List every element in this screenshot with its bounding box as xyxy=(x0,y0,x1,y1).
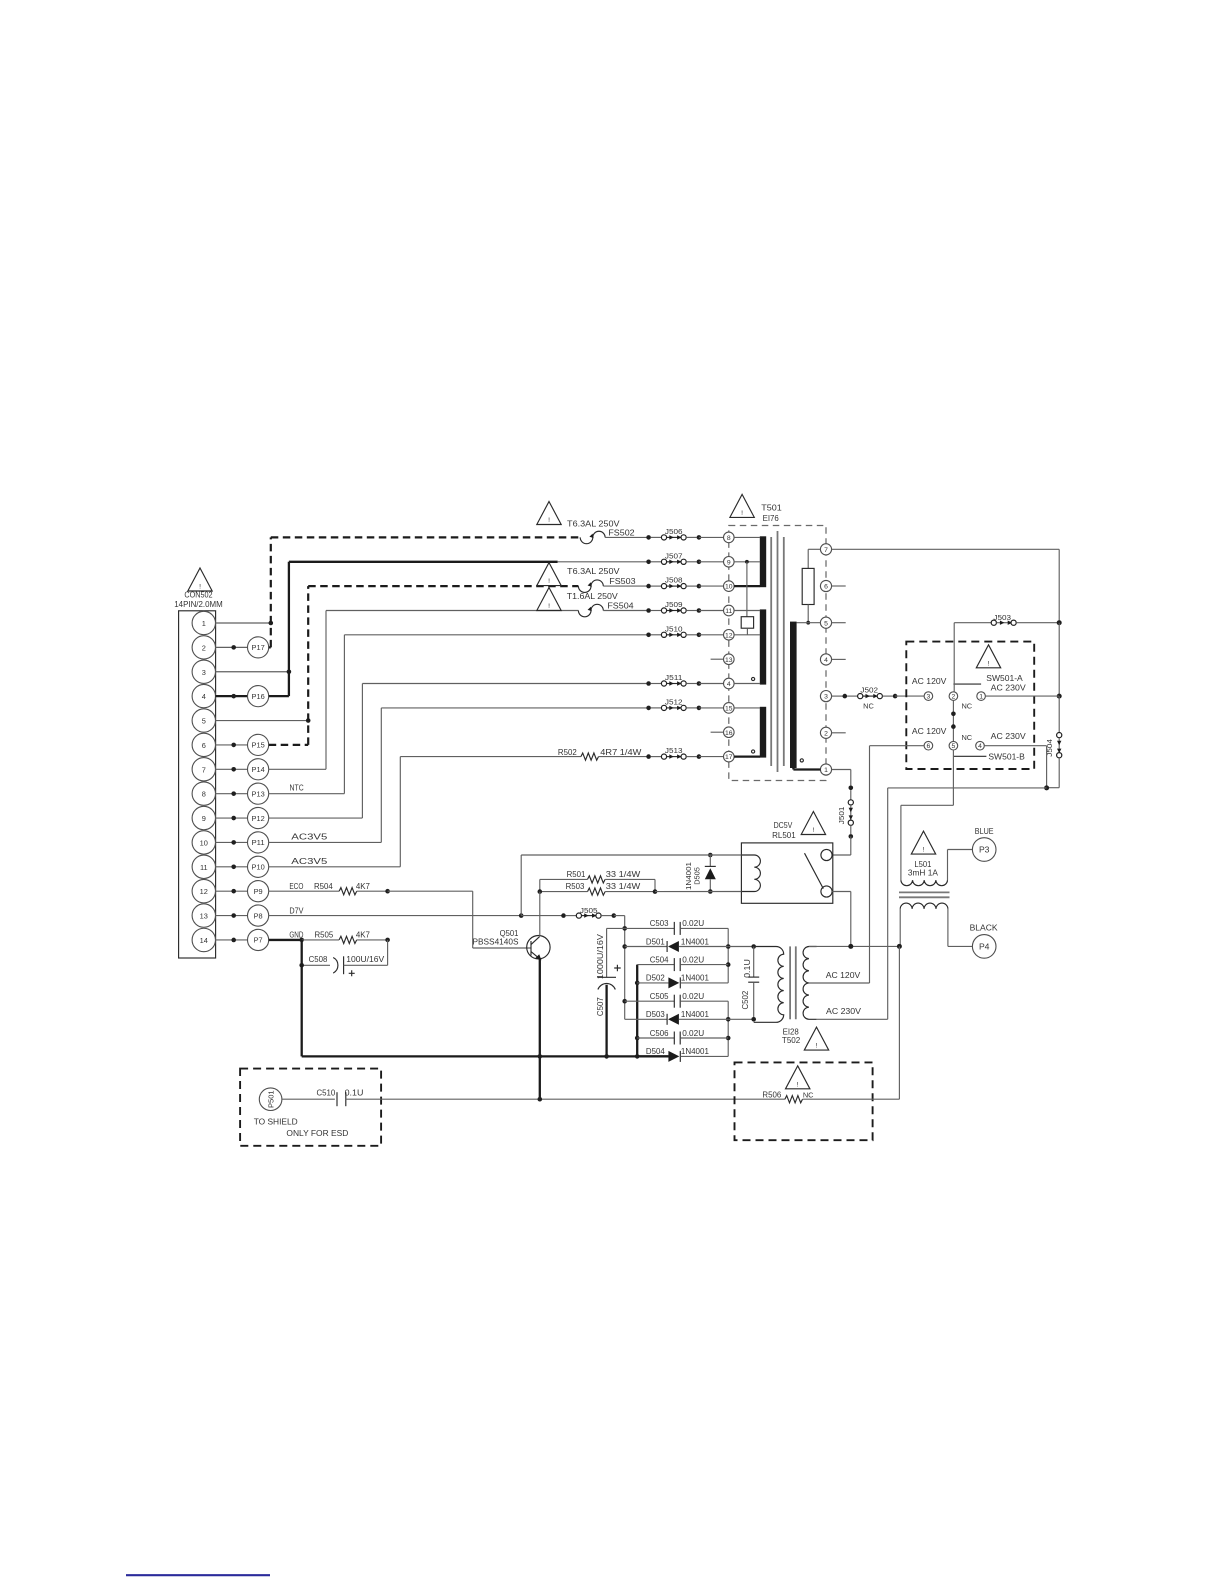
svg-text:!: ! xyxy=(741,510,743,517)
svg-text:33 1/4W: 33 1/4W xyxy=(606,881,641,891)
svg-text:T502: T502 xyxy=(782,1035,801,1045)
jumper J508 xyxy=(646,576,701,589)
svg-text:!: ! xyxy=(816,1043,818,1050)
CON502 pin 4 xyxy=(192,684,215,707)
junction dot GND/C508 branch xyxy=(299,963,304,968)
CON502 pin 1 xyxy=(192,611,215,634)
svg-text:J508: J508 xyxy=(665,576,683,585)
terminal P4 xyxy=(972,935,996,959)
transformer T502 core lines xyxy=(790,946,796,1019)
CON502 pin 6 xyxy=(192,733,215,756)
svg-text:9: 9 xyxy=(727,559,731,566)
wire L501 lower winding left to neutral rail xyxy=(899,909,901,947)
wire T501 pin10 to winding W1 (thick) xyxy=(734,585,760,587)
wire ECO: P9 to R504 xyxy=(269,890,339,892)
svg-text:P16: P16 xyxy=(252,692,265,701)
resistor R502 xyxy=(558,747,649,760)
svg-text:P17: P17 xyxy=(252,643,265,652)
jumper J513 xyxy=(646,746,701,759)
relay RL501 warning triangle xyxy=(801,812,825,835)
wire J513 to T501 pin 17 xyxy=(699,756,724,758)
svg-text:P11: P11 xyxy=(252,838,265,847)
svg-text:C503: C503 xyxy=(650,918,669,928)
svg-text:12: 12 xyxy=(725,632,733,639)
wire J501 to relay upper contact xyxy=(832,836,851,855)
capacitor C506 xyxy=(637,1028,728,1045)
wire coil drive: R503 to relay coil bottom xyxy=(655,891,741,893)
wire J508 to T501 pin 10 xyxy=(699,585,724,587)
wire Q501 collector riser xyxy=(539,892,541,936)
jumper J510 xyxy=(646,624,701,637)
jumper J501 xyxy=(837,786,853,839)
wire T501 pin3 to J502 xyxy=(832,695,845,697)
neutral rail T502-secondary-top to R506 riser xyxy=(809,945,900,947)
wire R506 to riser xyxy=(803,1098,900,1100)
junction dot R505/C508 xyxy=(385,938,390,943)
T501 pin13 stub xyxy=(711,658,724,660)
fuse FS504 warning triangle xyxy=(537,588,561,611)
T501 primary-side pin 12 xyxy=(724,630,735,641)
svg-text:1000U/16V: 1000U/16V xyxy=(595,934,605,979)
inductor L501 lower winding xyxy=(900,903,948,909)
T501 primary-side pin 9 xyxy=(724,557,735,568)
svg-text:0.1U: 0.1U xyxy=(345,1087,364,1097)
svg-text:10: 10 xyxy=(725,584,733,591)
CON502 pin 7 xyxy=(192,758,215,781)
inductor L501 upper winding xyxy=(901,880,948,886)
wire R505 to C508 node xyxy=(357,939,388,941)
svg-text:C506: C506 xyxy=(650,1028,669,1038)
svg-text:0.02U: 0.02U xyxy=(682,954,704,964)
svg-text:P4: P4 xyxy=(979,941,990,951)
T501 internal resistor pin7 to pin5 xyxy=(796,549,820,624)
T501 primary-side pin 8 xyxy=(724,532,735,543)
plug pin P8 xyxy=(216,905,269,926)
wire net L4: P14 riser to fuse FS504 xyxy=(269,611,579,770)
svg-text:14PIN/2.0MM: 14PIN/2.0MM xyxy=(174,599,223,609)
svg-text:12: 12 xyxy=(200,887,208,896)
transformer T502 secondary winding xyxy=(803,947,817,1020)
svg-text:2: 2 xyxy=(202,643,206,652)
wire T501 pin4 to winding W2 xyxy=(734,683,760,685)
wire T501 pin9 to winding W1 xyxy=(734,560,760,564)
svg-text:P10: P10 xyxy=(252,863,265,872)
wire right bus J503 to SW501 contact1 row xyxy=(1058,623,1060,696)
jumper J506 xyxy=(646,527,701,540)
svg-text:R505: R505 xyxy=(315,930,334,940)
wire net AC3V5 (a): P11 riser to J512 xyxy=(269,708,649,843)
svg-text:P14: P14 xyxy=(252,765,265,774)
svg-text:13: 13 xyxy=(200,912,208,921)
jumper J504 xyxy=(1045,733,1062,758)
wire D501 row to C502/T502 xyxy=(728,946,754,948)
svg-text:PBSS4140S: PBSS4140S xyxy=(473,936,519,946)
svg-text:1: 1 xyxy=(202,619,206,628)
svg-text:15: 15 xyxy=(725,706,733,713)
diode array bus A (J505 side) xyxy=(622,926,627,1019)
T501 primary-side pin 16 xyxy=(724,727,735,738)
svg-text:C510: C510 xyxy=(317,1087,336,1097)
T501 core lines xyxy=(771,531,784,772)
T501 primary-side pin 10 xyxy=(724,581,735,592)
wire P501 to C510 xyxy=(282,1098,335,1100)
svg-text:R501: R501 xyxy=(567,869,586,879)
diode array right bus upper xyxy=(726,928,731,983)
svg-text:16: 16 xyxy=(725,730,733,737)
relay RL501 coil xyxy=(741,855,760,891)
svg-text:NC: NC xyxy=(961,701,972,710)
T501 secondary-side pin 3 xyxy=(820,691,831,702)
svg-text:J507: J507 xyxy=(665,551,683,560)
T501 primary-side pin 13 xyxy=(724,654,735,665)
svg-text:RL501: RL501 xyxy=(772,830,796,840)
SW501-A pole 2 xyxy=(949,692,958,701)
svg-text:EI76: EI76 xyxy=(763,513,779,523)
plug pin P14 xyxy=(216,759,269,780)
CON502 pin 11 xyxy=(192,855,215,878)
svg-text:!: ! xyxy=(797,1081,799,1088)
plug pin P10 xyxy=(216,856,269,877)
T501 secondary-side pin 7 xyxy=(820,544,831,555)
svg-text:DC5V: DC5V xyxy=(774,820,793,830)
svg-text:!: ! xyxy=(548,603,550,610)
R506 dashed box xyxy=(735,1062,873,1140)
jumper J507 xyxy=(646,551,701,564)
T501 primary-side pin 4 xyxy=(724,678,735,689)
diode array bus B (thick) xyxy=(635,965,640,1059)
fuse FS502 warning triangle xyxy=(537,502,561,525)
terminal P3 xyxy=(972,838,996,862)
wire right bus to J504 xyxy=(1058,696,1060,732)
wire J506 to T501 pin 8 xyxy=(699,536,724,538)
T501 secondary-side pin 5 xyxy=(820,617,831,628)
plug pin P16 xyxy=(216,686,269,707)
svg-text:0.02U: 0.02U xyxy=(682,918,704,928)
svg-text:1N4001: 1N4001 xyxy=(681,1046,709,1056)
wire net AC3V5 (b): P10 riser to R502/J513 xyxy=(269,757,581,867)
wire relay lower contact to neutral rail xyxy=(832,892,851,947)
svg-text:BLUE: BLUE xyxy=(975,826,994,836)
transformer T502 warning triangle xyxy=(804,1027,828,1050)
svg-text:P8: P8 xyxy=(254,911,263,920)
svg-text:J509: J509 xyxy=(665,600,683,609)
svg-text:6: 6 xyxy=(202,741,206,750)
terminal P501 xyxy=(259,1088,282,1111)
resistor R501 xyxy=(540,869,655,892)
wire FS503 to J508 xyxy=(603,585,648,587)
T501 pin4 stub xyxy=(832,658,846,660)
svg-text:J506: J506 xyxy=(665,527,683,536)
wire T501 pin17 to winding W3 (thick) xyxy=(734,755,760,757)
svg-text:TO SHIELD: TO SHIELD xyxy=(254,1117,298,1127)
fuse FS503 xyxy=(578,580,603,592)
T501 thermal cutoff link (square) between pin9 wire and pin12 wire xyxy=(741,562,753,635)
svg-text:AC 230V: AC 230V xyxy=(826,1006,861,1016)
svg-text:J512: J512 xyxy=(665,698,683,707)
capacitor C508 xyxy=(302,940,388,976)
svg-text:AC3V5: AC3V5 xyxy=(291,832,327,842)
wire J507 to T501 pin 9 xyxy=(699,561,724,563)
jumper J511 xyxy=(646,673,701,686)
inductor L501 core lines xyxy=(899,892,950,897)
svg-text:C508: C508 xyxy=(309,954,328,964)
T501 pin16 stub xyxy=(711,731,724,733)
wire SW501 contact6 to T502 AC120V tap riser xyxy=(870,746,925,983)
svg-text:3: 3 xyxy=(824,694,828,701)
wire J504 down to AC230V node xyxy=(1047,758,1060,788)
SW501-B contact 6 xyxy=(924,741,933,750)
wire L501 upper winding to P3 xyxy=(948,850,973,881)
plug pin P7 xyxy=(216,929,269,950)
svg-text:0.02U: 0.02U xyxy=(682,1028,704,1038)
diode array right bus lower xyxy=(726,1001,731,1056)
T501 pin6 stub xyxy=(832,585,846,587)
wire FS504 to J509 xyxy=(603,610,648,612)
svg-text:C505: C505 xyxy=(650,991,669,1001)
wire SW501 pole riser to J503 xyxy=(953,623,955,692)
svg-text:J503: J503 xyxy=(993,613,1011,622)
T501 secondary-side pin 1 xyxy=(820,764,831,775)
fuse FS503 warning triangle xyxy=(537,563,561,586)
wire T501 pin7 to right bus riser xyxy=(832,549,1060,622)
svg-text:P9: P9 xyxy=(254,887,263,896)
svg-text:P7: P7 xyxy=(254,936,263,945)
junction dot base node xyxy=(385,889,390,894)
T501 secondary-side pin 2 xyxy=(820,727,831,738)
svg-text:5: 5 xyxy=(952,743,956,750)
svg-text:2: 2 xyxy=(824,730,828,737)
plug pin P15 xyxy=(216,734,269,755)
plug pin P17 xyxy=(216,637,269,658)
svg-text:9: 9 xyxy=(202,814,206,823)
svg-text:T501: T501 xyxy=(761,503,782,513)
wire J512 to T501 pin 15 xyxy=(699,707,724,709)
diode D504 xyxy=(637,1046,728,1062)
plug pin P12 xyxy=(216,807,269,828)
svg-text:AC3V5: AC3V5 xyxy=(291,856,327,866)
junction dot D7V/relay riser xyxy=(519,913,524,918)
svg-text:4: 4 xyxy=(727,681,731,688)
wire C510 to R506 (shield net) xyxy=(346,1098,785,1100)
capacitor C505 xyxy=(625,991,729,1008)
svg-text:AC 230V: AC 230V xyxy=(991,682,1026,692)
junction dot AC230V node xyxy=(1044,785,1049,790)
wire J509 to T501 pin 11 xyxy=(699,610,724,612)
T501 winding bar W1 xyxy=(760,536,766,587)
svg-text:14: 14 xyxy=(200,936,208,945)
SW501-B throw blade xyxy=(953,755,986,757)
CON502 pin 3 xyxy=(192,660,215,683)
wire R506 riser xyxy=(898,946,900,1099)
svg-text:D7V: D7V xyxy=(289,905,303,915)
resistor R506 xyxy=(762,1090,814,1103)
svg-text:1: 1 xyxy=(979,694,983,701)
inductor L501 warning triangle xyxy=(911,831,935,854)
svg-text:J513: J513 xyxy=(665,746,683,755)
connector CON502 body xyxy=(179,611,216,958)
wire J505 to diode array bus A xyxy=(614,916,625,929)
junction dot rail/relay drop xyxy=(848,944,853,949)
svg-text:J505: J505 xyxy=(580,906,598,915)
junction dot R501/R503 right xyxy=(653,889,658,894)
svg-text:AC 120V: AC 120V xyxy=(912,726,947,736)
svg-text:C504: C504 xyxy=(650,954,669,964)
wire base node to Q501 base xyxy=(388,891,531,948)
plug pin P13 xyxy=(216,783,269,804)
svg-text:P501: P501 xyxy=(266,1090,275,1108)
T501 winding bar W3 xyxy=(760,707,766,758)
switch SW501 warning triangle xyxy=(976,645,1000,668)
jumper J509 xyxy=(646,600,701,613)
T501 primary-side pin 11 xyxy=(724,605,735,616)
svg-text:NC: NC xyxy=(803,1091,814,1100)
svg-text:!: ! xyxy=(812,827,814,834)
svg-text:33 1/4W: 33 1/4W xyxy=(606,869,641,879)
svg-text:1: 1 xyxy=(824,767,828,774)
wire L501 lower winding right to P4 xyxy=(948,909,973,947)
svg-text:!: ! xyxy=(548,517,550,524)
svg-text:D504: D504 xyxy=(646,1046,665,1056)
svg-text:4R7 1/4W: 4R7 1/4W xyxy=(600,747,642,757)
svg-text:1N4001: 1N4001 xyxy=(681,936,709,946)
T501 secondary-side pin 6 xyxy=(820,580,831,591)
svg-text:R502: R502 xyxy=(558,747,577,757)
svg-text:P15: P15 xyxy=(252,741,265,750)
diode D501 xyxy=(625,936,729,952)
svg-text:2: 2 xyxy=(952,694,956,701)
wire SW501 pole5 down to L501 xyxy=(901,750,954,880)
junction dot SW501 contact1/right bus xyxy=(1057,694,1062,699)
svg-text:ONLY FOR ESD: ONLY FOR ESD xyxy=(286,1128,348,1138)
wire R504 to base node xyxy=(357,890,388,892)
SW501 pole tie line with dots xyxy=(951,700,956,741)
wire net L1: CON502 pin1+P17 dashed riser to fuse FS502 xyxy=(216,537,581,647)
svg-text:5: 5 xyxy=(202,717,206,726)
fuse FS504 xyxy=(578,604,603,616)
svg-text:0.1U: 0.1U xyxy=(742,959,752,978)
svg-text:P12: P12 xyxy=(252,814,265,823)
svg-text:J511: J511 xyxy=(665,673,683,682)
svg-text:4K7: 4K7 xyxy=(356,930,370,940)
transformer T501 warning triangle xyxy=(730,494,754,517)
diode D502 xyxy=(637,973,728,989)
plug pin P9 xyxy=(216,881,269,902)
svg-text:D502: D502 xyxy=(646,973,665,983)
wire AC230V node to T502 AC230V tap riser xyxy=(888,788,1047,1019)
svg-text:P13: P13 xyxy=(252,789,265,798)
wire T502 AC230V tap xyxy=(817,1018,888,1020)
transistor Q501 xyxy=(527,936,550,961)
svg-text:NTC: NTC xyxy=(290,782,304,792)
svg-text:FS504: FS504 xyxy=(607,600,634,610)
junction dot shield net/Q501 emitter xyxy=(538,1097,543,1102)
svg-text:6: 6 xyxy=(824,584,828,591)
wire D7V riser to relay coil top xyxy=(521,855,741,916)
junction dot R501/R503 left (collector node) xyxy=(538,889,543,894)
wire SW501 contact4 to AC230V node xyxy=(984,746,1046,788)
svg-text:11: 11 xyxy=(725,608,732,615)
svg-text:P3: P3 xyxy=(979,845,990,855)
svg-text:7: 7 xyxy=(824,547,828,554)
CON502 pin 2 xyxy=(192,636,215,659)
svg-text:4: 4 xyxy=(824,657,828,664)
svg-text:!: ! xyxy=(548,578,550,585)
wire GND: P7 to GND node (thick) xyxy=(269,939,302,941)
svg-text:8: 8 xyxy=(202,790,206,799)
svg-text:J510: J510 xyxy=(665,624,683,633)
wire T501 pin1 to J501 xyxy=(832,770,851,786)
T501 winding bar W2 xyxy=(760,609,766,684)
junction dot J503/right bus xyxy=(1057,620,1062,625)
svg-text:FS503: FS503 xyxy=(609,576,636,586)
svg-text:FS502: FS502 xyxy=(608,528,635,538)
CON502 pin 9 xyxy=(192,806,215,829)
wire FS502 to J506 xyxy=(605,536,649,538)
svg-text:BLACK: BLACK xyxy=(970,923,998,933)
svg-text:3mH 1A: 3mH 1A xyxy=(908,868,938,878)
wire SW501 contact1 to right bus xyxy=(985,695,1059,697)
diode D503 xyxy=(625,1009,729,1025)
T501 pin2 stub xyxy=(832,732,846,734)
SW501-B pole 5 xyxy=(949,741,958,750)
resistor R505 xyxy=(302,930,370,944)
CON502 pin 10 xyxy=(192,831,215,854)
wire Q501 emitter (thick) xyxy=(539,959,541,1099)
wire D503 row to C502/T502 xyxy=(728,1018,754,1020)
wire T501 pin11 to winding W2 xyxy=(734,610,760,612)
CON502 pin 14 xyxy=(192,928,215,951)
R506 warning triangle xyxy=(786,1066,810,1089)
junction dot rail/L501/R506 riser xyxy=(897,944,902,949)
junction dot GND/C507 xyxy=(604,1054,609,1059)
svg-text:SW501-B: SW501-B xyxy=(988,751,1025,761)
relay RL501 lower contact xyxy=(821,886,832,897)
SW501-B contact 4 xyxy=(976,741,985,750)
wire J511 to T501 pin 4 xyxy=(699,683,724,685)
svg-text:17: 17 xyxy=(725,754,733,761)
switch SW501 dashed outline xyxy=(906,642,1034,769)
svg-text:AC 120V: AC 120V xyxy=(912,676,947,686)
CON502 pin 8 xyxy=(192,782,215,805)
T501 winding polarity dot W3 xyxy=(752,750,755,753)
T501 pin5 stub xyxy=(832,622,846,624)
T501 primary-side pin 15 xyxy=(724,703,735,714)
svg-text:0.02U: 0.02U xyxy=(682,991,704,1001)
junction dot GND node xyxy=(299,938,304,943)
wire net L3: CON502 pin5+P15 dashed riser to fuse FS503 xyxy=(216,586,579,745)
svg-text:100U/16V: 100U/16V xyxy=(346,954,384,964)
T501 secondary winding bar xyxy=(790,622,797,768)
svg-text:3: 3 xyxy=(202,668,206,677)
svg-text:NC: NC xyxy=(961,733,972,742)
SW501-A contact 1 xyxy=(977,692,986,701)
svg-text:J501: J501 xyxy=(837,807,846,825)
svg-text:R504: R504 xyxy=(314,881,333,891)
svg-text:4: 4 xyxy=(978,743,982,750)
junction dot GND/emitter xyxy=(538,1054,543,1059)
wire T501 pin15 to winding W3 xyxy=(734,707,760,709)
capacitor C510 xyxy=(317,1087,364,1106)
CON502 pin 12 xyxy=(192,879,215,902)
CON502 pin 5 xyxy=(192,709,215,732)
svg-text:D505: D505 xyxy=(693,867,702,885)
relay RL501 body xyxy=(741,843,832,903)
svg-text:1N4001: 1N4001 xyxy=(681,973,709,983)
wire T501 pin8 to winding W1 xyxy=(734,536,760,538)
svg-text:10: 10 xyxy=(200,838,208,847)
connector CON502 warning triangle xyxy=(188,568,212,591)
wire D7V to J505 xyxy=(521,915,563,917)
